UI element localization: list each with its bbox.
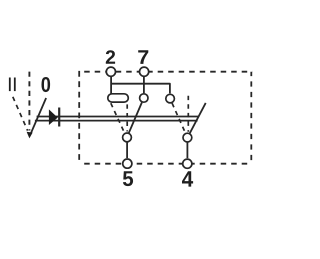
coupling bar lower line (35, 120, 198, 122)
terminal 5 circle (123, 159, 132, 168)
terminal 4 circle (183, 159, 192, 168)
wire branch 2 to right contact (111, 84, 170, 94)
wire terminal 2 down to lamp (110, 76, 112, 94)
lamp capsule contact (108, 94, 129, 102)
position I lever (dashed vertical) (28, 72, 30, 131)
wire moving contact 4 to terminal 4 (186, 142, 188, 158)
contact 4 dashed vertical lever (187, 96, 189, 132)
wire moving contact 5 to terminal 5 (126, 142, 128, 158)
position II lever (dashed) (13, 97, 28, 131)
label II (position II) (9, 78, 16, 92)
fixed contact circle under 7 (140, 94, 148, 102)
switch enclosure bottom dashed border (79, 163, 251, 165)
contact 5 dashed lever to lamp (111, 103, 125, 133)
contact 4 dashed lever to right contact (172, 103, 185, 133)
switch enclosure left dashed border (78, 71, 80, 164)
position 0 lever (solid, actuator) (31, 98, 46, 134)
terminal 2 circle (106, 67, 115, 76)
label 2 (terminal/position 2) (106, 50, 115, 64)
coupling bar upper line (37, 116, 199, 118)
moving contact 4 circle (183, 133, 192, 142)
diode D1 cathode bar (58, 108, 60, 127)
label 7 (terminal/position 7) (138, 50, 148, 64)
contact 5 dashed vertical lever (126, 104, 128, 131)
wire terminal 7 down to contact (143, 76, 145, 93)
switch enclosure top dashed border (79, 71, 252, 73)
label 4 (terminal/position 4) (182, 171, 193, 186)
terminal 7 circle (140, 67, 149, 76)
moving contact 5 circle (123, 133, 132, 142)
label 5 (terminal/position 5) (123, 171, 133, 186)
switch enclosure right dashed border (250, 72, 252, 164)
contact 4 solid lever open (190, 103, 206, 133)
contact 5 solid lever to contact 7 (129, 102, 142, 133)
label 0 (terminal/position 0) (41, 77, 50, 92)
actuator arrowhead (27, 132, 33, 139)
diode D1 anode triangle (49, 109, 58, 125)
fixed contact circle right (166, 94, 175, 103)
